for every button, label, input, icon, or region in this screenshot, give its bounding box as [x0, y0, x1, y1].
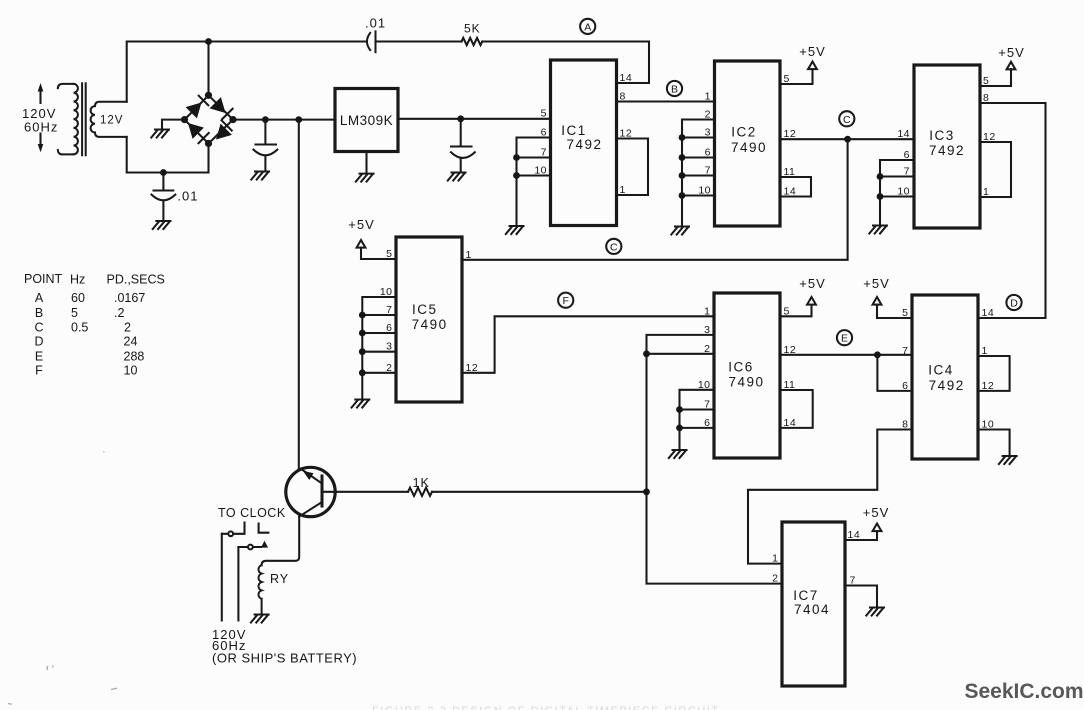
svg-text:5: 5	[983, 75, 989, 87]
svg-text:D: D	[1010, 298, 1018, 310]
svg-text:7: 7	[705, 165, 711, 177]
svg-text:5: 5	[902, 307, 908, 319]
svg-text:288: 288	[124, 350, 145, 364]
svg-text:5: 5	[784, 73, 790, 85]
svg-text:7492: 7492	[929, 378, 965, 393]
svg-text:6: 6	[386, 322, 392, 334]
svg-text:3: 3	[705, 127, 711, 139]
svg-text:5: 5	[71, 306, 78, 320]
svg-text:.2: .2	[114, 306, 124, 320]
svg-text:IC4: IC4	[928, 363, 954, 378]
svg-text:12: 12	[466, 362, 479, 374]
svg-text:14: 14	[982, 307, 995, 319]
svg-text:C: C	[843, 114, 851, 126]
svg-text:C: C	[610, 241, 618, 253]
svg-text:IC2: IC2	[731, 125, 757, 140]
svg-text:LM309K: LM309K	[340, 113, 393, 128]
svg-text:.0167: .0167	[114, 291, 145, 305]
svg-text:14: 14	[784, 417, 797, 429]
svg-text:10: 10	[698, 379, 711, 391]
svg-text:11: 11	[784, 379, 796, 391]
svg-text:SeekIC.com: SeekIC.com	[965, 680, 1084, 703]
svg-text:3: 3	[386, 341, 392, 353]
svg-text:2: 2	[704, 343, 710, 355]
svg-text:IC5: IC5	[412, 302, 438, 317]
svg-text:+5V: +5V	[863, 276, 890, 291]
svg-text:A: A	[584, 21, 591, 33]
svg-text:POINT: POINT	[24, 272, 63, 286]
svg-text:12: 12	[983, 131, 996, 143]
svg-text:7: 7	[902, 345, 908, 357]
svg-text:F: F	[35, 364, 43, 378]
svg-text:IC1: IC1	[561, 123, 587, 138]
svg-text:(OR SHIP'S BATTERY): (OR SHIP'S BATTERY)	[212, 651, 357, 666]
svg-text:1K: 1K	[413, 476, 430, 490]
svg-text:B: B	[671, 84, 678, 96]
svg-text:7490: 7490	[728, 375, 764, 390]
svg-text:+5V: +5V	[998, 45, 1025, 60]
svg-text:1: 1	[704, 305, 710, 317]
svg-text:1: 1	[466, 249, 472, 261]
svg-text:7490: 7490	[731, 140, 767, 155]
svg-text:+5V: +5V	[348, 217, 375, 232]
svg-text:14: 14	[784, 186, 797, 198]
svg-text:RY: RY	[270, 572, 289, 586]
svg-text:PD.,SECS: PD.,SECS	[107, 273, 165, 287]
svg-text:6: 6	[904, 149, 910, 161]
svg-text:10: 10	[698, 185, 711, 197]
svg-text:11: 11	[784, 166, 796, 178]
svg-text:7: 7	[850, 575, 856, 587]
svg-text:D: D	[34, 335, 43, 349]
svg-text:FIGURE 2-2 DESIGN OF DIGITAL T: FIGURE 2-2 DESIGN OF DIGITAL TIMEPIECE C…	[372, 705, 720, 710]
svg-text:E: E	[35, 350, 43, 364]
svg-text:14: 14	[620, 72, 633, 84]
svg-text:Hz: Hz	[70, 273, 85, 287]
svg-text:5: 5	[386, 248, 392, 260]
svg-text:10: 10	[124, 364, 138, 378]
svg-text:IC3: IC3	[929, 128, 955, 143]
svg-text:1: 1	[983, 186, 989, 198]
svg-text:0.5: 0.5	[71, 321, 88, 335]
svg-text:2: 2	[772, 573, 778, 585]
svg-text:.01: .01	[177, 188, 198, 203]
svg-text:60: 60	[71, 291, 85, 305]
svg-text:10: 10	[897, 186, 910, 198]
svg-text:+5V: +5V	[863, 505, 890, 520]
svg-text:2: 2	[124, 321, 131, 335]
svg-text:6: 6	[541, 127, 547, 139]
svg-text:10: 10	[982, 419, 995, 431]
svg-text:7404: 7404	[794, 602, 830, 617]
svg-text:6: 6	[704, 417, 710, 429]
svg-text:12: 12	[784, 128, 797, 140]
svg-text:1: 1	[982, 345, 988, 357]
svg-text:2: 2	[705, 109, 711, 121]
svg-text:TO CLOCK: TO CLOCK	[218, 506, 286, 520]
svg-text:5K: 5K	[464, 22, 481, 36]
svg-text:6: 6	[902, 380, 908, 392]
svg-text:14: 14	[897, 128, 910, 140]
svg-text:1: 1	[620, 184, 626, 196]
svg-text:12: 12	[982, 380, 995, 392]
svg-text:12V: 12V	[100, 115, 123, 127]
svg-text:A: A	[35, 291, 44, 305]
svg-text:+5V: +5V	[799, 276, 826, 291]
svg-text:7492: 7492	[929, 143, 965, 158]
svg-text:1: 1	[705, 91, 711, 103]
svg-text:6: 6	[705, 147, 711, 159]
svg-text:10: 10	[534, 165, 547, 177]
svg-text:60Hz: 60Hz	[24, 120, 58, 135]
svg-text:C: C	[34, 321, 43, 335]
svg-text:3: 3	[704, 324, 710, 336]
svg-text:7490: 7490	[412, 317, 448, 332]
svg-text:E: E	[841, 333, 848, 345]
svg-text:7: 7	[541, 147, 547, 159]
svg-text:7492: 7492	[566, 137, 602, 152]
svg-text:7: 7	[386, 304, 392, 316]
svg-text:F: F	[562, 295, 568, 307]
svg-text:8: 8	[902, 419, 908, 431]
svg-text:8: 8	[620, 91, 626, 103]
svg-text:8: 8	[983, 92, 989, 104]
svg-text:IC6: IC6	[728, 360, 754, 375]
svg-text:IC7: IC7	[793, 588, 819, 603]
svg-text:5: 5	[541, 108, 547, 120]
svg-text:14: 14	[848, 529, 861, 541]
svg-text:10: 10	[380, 286, 393, 298]
svg-text:1: 1	[772, 553, 778, 565]
svg-text:5: 5	[784, 305, 790, 317]
svg-text:24: 24	[124, 335, 138, 349]
svg-text:7: 7	[704, 399, 710, 411]
svg-text:B: B	[35, 306, 43, 320]
svg-text:+5V: +5V	[799, 44, 826, 59]
svg-text:12: 12	[620, 128, 633, 140]
svg-text:2: 2	[386, 362, 392, 374]
svg-text:.01: .01	[365, 16, 386, 31]
svg-text:7: 7	[904, 166, 910, 178]
svg-text:12: 12	[784, 344, 797, 356]
